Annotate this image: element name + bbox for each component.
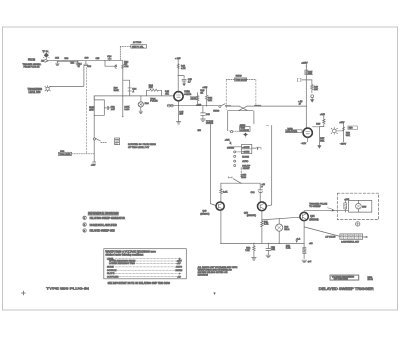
ground below V45A cathode bbox=[176, 101, 184, 124]
svg-text:DELAYED SWEEP GEN: DELAYED SWEEP GEN bbox=[90, 230, 115, 233]
svg-text:NE-2: NE-2 bbox=[284, 229, 290, 231]
node +100 arrow onto wire bbox=[225, 139, 232, 144]
svg-text:2.2K: 2.2K bbox=[223, 192, 228, 194]
svg-text:AUTO: AUTO bbox=[176, 266, 182, 269]
svg-text:SEE IMPORTANT NOTE ON DELAYING: SEE IMPORTANT NOTE ON DELAYING SWP TRIG … bbox=[108, 282, 170, 285]
node circled plus below box bbox=[356, 222, 360, 226]
svg-text:24 TRIG: 24 TRIG bbox=[133, 42, 142, 44]
transistor Q40 bbox=[200, 202, 224, 215]
connector arrow to sweep bbox=[313, 127, 326, 148]
svg-text:GATE: GATE bbox=[207, 121, 213, 124]
svg-text:ON TRIG DIAG: ON TRIG DIAG bbox=[334, 278, 349, 281]
svg-text:27K: 27K bbox=[149, 87, 153, 89]
svg-text:16K: 16K bbox=[314, 89, 318, 91]
svg-text:NORM: NORM bbox=[242, 156, 249, 158]
svg-text:MODE: MODE bbox=[107, 267, 114, 269]
parallel pair R/C bracket bbox=[114, 80, 137, 96]
svg-text:5.6K: 5.6K bbox=[286, 248, 291, 250]
lamp B59 in box bbox=[356, 200, 367, 212]
node register mark + bbox=[21, 291, 25, 295]
node trig source box bbox=[240, 125, 251, 132]
svg-text:HORIZONTAL AMPLIFIER: HORIZONTAL AMPLIFIER bbox=[90, 224, 118, 227]
wire long vertical from GATE to Q40 bbox=[211, 124, 216, 206]
svg-text:30K: 30K bbox=[308, 74, 312, 76]
switch C40B arm bbox=[229, 168, 247, 184]
resistor R59 in box bbox=[344, 199, 350, 212]
svg-text:56K: 56K bbox=[346, 135, 350, 137]
node +12 label at junction bbox=[298, 101, 303, 105]
svg-text:SLOPE: SLOPE bbox=[107, 273, 115, 275]
node reference diagrams legend bbox=[83, 211, 125, 233]
svg-text:COUPLING: COUPLING bbox=[107, 276, 119, 278]
capacitor C44 on corner bbox=[251, 183, 266, 201]
svg-text:SOURCE: SOURCE bbox=[107, 270, 117, 272]
svg-text:+225: +225 bbox=[202, 87, 208, 89]
svg-text:RESET: RESET bbox=[243, 168, 251, 170]
svg-text:FROM: FROM bbox=[28, 59, 35, 62]
resistor R34 loop bbox=[147, 85, 162, 103]
wire V45B cathode to -12 bbox=[301, 137, 308, 145]
wire cathode line y=105.7 bbox=[167, 105, 218, 107]
node voltage note bbox=[296, 239, 301, 243]
svg-text:TRIG: TRIG bbox=[241, 177, 247, 179]
capacitor C32 bbox=[104, 106, 115, 111]
vacuum tube V45B bbox=[285, 128, 312, 137]
resistor R44 from +225 bbox=[202, 87, 213, 106]
svg-text:PULSE: PULSE bbox=[150, 101, 158, 103]
node +225 plate supply V45A bbox=[175, 58, 186, 91]
node sel jumper bbox=[297, 79, 306, 82]
connector arrow input bbox=[41, 59, 48, 62]
wire y=146.8 with contact table bbox=[227, 144, 261, 153]
node trigger pulse label with arrow bbox=[309, 203, 334, 211]
wire base bus y=183.2 bbox=[221, 183, 260, 184]
svg-text:4.5 VOLTS: 4.5 VOLTS bbox=[325, 236, 336, 238]
svg-text:TO SWEEP: TO SWEEP bbox=[309, 206, 321, 208]
svg-text:NORM: NORM bbox=[176, 270, 183, 272]
svg-text:V45A: V45A bbox=[184, 90, 190, 93]
ground below R55 bbox=[302, 260, 312, 263]
svg-text:0.1%: 0.1% bbox=[124, 109, 129, 111]
wire from cal down to wafer bbox=[228, 111, 239, 133]
wire Q50 emitter junction bbox=[261, 211, 300, 221]
capacitor C24 above bus bbox=[107, 56, 112, 61]
wire pot wiper to trig level symbol bbox=[50, 66, 84, 87]
svg-text:DIAGRAM: DIAGRAM bbox=[198, 273, 208, 276]
node slope pot box bbox=[115, 138, 120, 145]
svg-text:10-64: 10-64 bbox=[368, 279, 374, 281]
node waveform conditions chart box bbox=[104, 249, 187, 279]
svg-text:SOURCE: SOURCE bbox=[240, 130, 249, 132]
wire vertical x=122.8 from bus down bbox=[122, 61, 124, 80]
node TRIGGERING LEVEL label row bbox=[28, 86, 51, 94]
node +12v dropper cluster with sun symbol bbox=[331, 122, 357, 146]
node rotated note bbox=[128, 143, 156, 149]
svg-text:2 AMPHENOL SKT: 2 AMPHENOL SKT bbox=[341, 241, 360, 244]
node TRIG INPUT label bbox=[23, 59, 42, 69]
connector J2 grid box bbox=[340, 234, 367, 244]
node SW40 TRIG MODE box top bbox=[226, 76, 256, 110]
node +225 supply right bbox=[301, 62, 308, 128]
svg-text:(DELAYED): (DELAYED) bbox=[286, 130, 297, 133]
lamp B40 bbox=[276, 219, 291, 244]
resistor R55 boxed bbox=[303, 247, 306, 253]
svg-text:−GATE: −GATE bbox=[242, 151, 250, 154]
wire into dashed box bbox=[344, 200, 372, 212]
wire to -12 bbox=[91, 140, 96, 167]
wire L to coax connector bbox=[104, 60, 116, 68]
svg-text:56K: 56K bbox=[320, 140, 324, 142]
resistor R32 loop at x94 bbox=[89, 96, 104, 116]
transistor Q34 pickoff bbox=[300, 212, 319, 221]
resistor R49 plate bbox=[316, 114, 325, 126]
svg-text:DELAYED SWEEP TRIGGER: DELAYED SWEEP TRIGGER bbox=[319, 287, 375, 291]
svg-text:−150V: −150V bbox=[340, 144, 347, 146]
switch SW40 crossover bbox=[228, 105, 307, 110]
resistor R14 to ground bbox=[76, 61, 83, 68]
node grid label R45 bbox=[165, 91, 170, 95]
wire wafer out vertical x=271.7 bbox=[266, 125, 271, 206]
svg-text:FROM PLUG-IN: FROM PLUG-IN bbox=[24, 66, 40, 68]
svg-text:AC: AC bbox=[178, 275, 181, 278]
resistor R48 branch bbox=[306, 80, 318, 102]
wire x=253.9 down from switch bbox=[253, 111, 255, 124]
svg-text:SW40B: SW40B bbox=[227, 147, 235, 149]
resistor R51 bbox=[261, 220, 269, 243]
switch wafer contacts bbox=[234, 151, 251, 170]
node SEE PARTS LIST box bbox=[120, 42, 146, 61]
svg-text:REFERENCE DIAGRAMS: REFERENCE DIAGRAMS bbox=[88, 211, 119, 215]
resistor R46 vertical bbox=[196, 90, 205, 106]
resistor R52 to ground bbox=[245, 243, 256, 260]
svg-text:SW40: SW40 bbox=[213, 111, 220, 113]
resistor R33 divider leg bbox=[122, 95, 130, 117]
wire grid bus y=95.9 bbox=[94, 96, 173, 100]
svg-text:+1V: +1V bbox=[177, 263, 181, 265]
svg-text:+12V: +12V bbox=[339, 122, 345, 124]
capacitor C44 branch bbox=[178, 76, 192, 86]
diagonal wire to connector bbox=[305, 227, 340, 236]
svg-text:-12V: -12V bbox=[91, 165, 96, 167]
capacitor C52 to ground bbox=[266, 243, 276, 257]
svg-text:LEVEL R30: LEVEL R30 bbox=[29, 92, 42, 94]
transistor Q50 bbox=[244, 202, 266, 217]
node test point TP14 (sun symbol) bbox=[42, 51, 49, 59]
svg-text:(2N2207): (2N2207) bbox=[200, 213, 209, 215]
potentiometer R30 TRIG LEVEL box bbox=[58, 151, 94, 156]
wire Q34 emitter down bbox=[303, 221, 305, 259]
capacitor C14 to ground bbox=[55, 57, 60, 65]
diode D34 bbox=[138, 95, 149, 113]
switch contact SW30 bbox=[93, 115, 106, 142]
node R53 label under bus bbox=[286, 245, 291, 249]
svg-text:OF TRIG LEVEL POT: OF TRIG LEVEL POT bbox=[128, 147, 150, 149]
svg-text:LOWER READINGS TRIG: LOWER READINGS TRIG bbox=[109, 262, 135, 265]
svg-text:−12V: −12V bbox=[301, 143, 307, 145]
node parts note bbox=[198, 266, 238, 277]
svg-text:+100: +100 bbox=[196, 104, 202, 106]
wire emitter bus y=243.4 bbox=[220, 210, 304, 244]
svg-text:47K: 47K bbox=[165, 94, 169, 96]
resistor R47 boxed bbox=[305, 70, 313, 76]
node title block bbox=[330, 275, 374, 281]
wire Q34 collector to dashed box bbox=[304, 211, 344, 213]
resistor R41 bbox=[220, 183, 228, 201]
svg-text:TYPE 3B3 PLUG-IN: TYPE 3B3 PLUG-IN bbox=[46, 287, 89, 291]
neon B45 bbox=[167, 104, 173, 107]
svg-text:4.7K: 4.7K bbox=[181, 68, 186, 70]
switch SW40 arm 1 bbox=[213, 104, 239, 113]
svg-text:SEE PL VAL: SEE PL VAL bbox=[132, 45, 144, 48]
svg-text:TRIG LEVEL: TRIG LEVEL bbox=[59, 154, 71, 156]
node GATE net box bbox=[198, 120, 214, 131]
svg-text:1.5K: 1.5K bbox=[264, 224, 269, 226]
node diamond symbol below box bbox=[243, 133, 248, 138]
svg-text:7.5K: 7.5K bbox=[245, 250, 250, 252]
svg-text:+225: +225 bbox=[320, 114, 326, 116]
svg-text:16K: 16K bbox=[208, 100, 212, 102]
svg-text:+225V: +225V bbox=[301, 62, 308, 64]
svg-text:DELAYING SWEEP GENERATOR: DELAYING SWEEP GENERATOR bbox=[90, 217, 126, 220]
svg-text:Q34: Q34 bbox=[310, 216, 315, 218]
node small labels on bus bbox=[65, 58, 101, 65]
svg-text:obtained under following condi: obtained under following conditions: bbox=[105, 254, 143, 257]
svg-text:(2N2207): (2N2207) bbox=[247, 215, 256, 217]
wire main input bus y=60.7 bbox=[49, 60, 123, 62]
capacitor C46 to ground bbox=[201, 106, 211, 121]
svg-text:ROTATED 90° FROM REAR: ROTATED 90° FROM REAR bbox=[128, 143, 156, 146]
dashed box ext trigger bbox=[337, 193, 378, 219]
svg-text:AUTO: AUTO bbox=[242, 160, 248, 163]
capacitor C30 with mech dash-dot line to R30 bbox=[84, 58, 92, 154]
resistor R24 on vertical bbox=[122, 61, 130, 68]
svg-text:TRIG MODE: TRIG MODE bbox=[235, 80, 247, 82]
svg-text:+GATE: +GATE bbox=[242, 146, 250, 149]
svg-text:SW40: SW40 bbox=[236, 76, 243, 78]
svg-text:510K: 510K bbox=[114, 90, 120, 92]
vacuum tube V45A bbox=[174, 90, 198, 100]
